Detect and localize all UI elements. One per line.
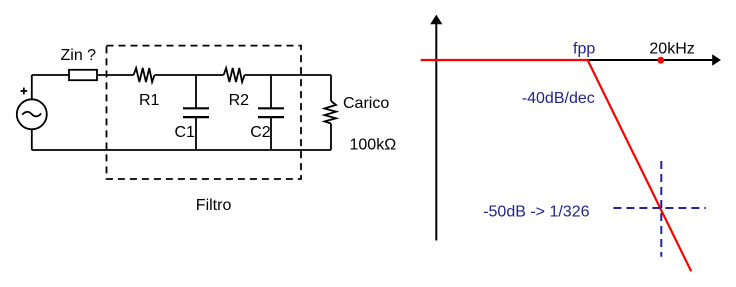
svg-text:C2: C2 [250, 124, 271, 141]
svg-text:C1: C1 [175, 124, 196, 141]
svg-text:fpp: fpp [573, 40, 595, 57]
svg-text:Carico: Carico [343, 95, 389, 112]
svg-text:20kHz: 20kHz [649, 40, 694, 57]
svg-text:-50dB -> 1/326: -50dB -> 1/326 [483, 204, 589, 221]
svg-text:-40dB/dec: -40dB/dec [522, 90, 595, 107]
svg-text:100kΩ: 100kΩ [350, 136, 397, 153]
svg-text:R2: R2 [229, 92, 250, 109]
svg-text:R1: R1 [139, 92, 160, 109]
svg-text:Filtro: Filtro [196, 197, 232, 214]
svg-text:Zin ?: Zin ? [61, 47, 97, 64]
